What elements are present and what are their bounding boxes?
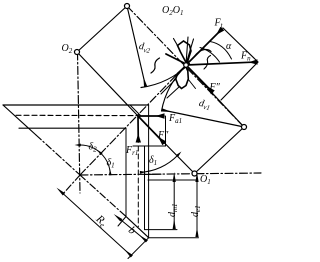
label d_v2 <box>138 41 152 55</box>
svg-text:Fr1: Fr1 <box>125 145 138 157</box>
tooth spur lower b <box>167 87 180 99</box>
wire right node to O1 <box>195 127 245 174</box>
hook curve left of mesh1 <box>151 58 160 73</box>
force Fr1 arrow <box>137 116 139 142</box>
tooth contact stroke up-left <box>166 54 186 64</box>
pinion left edge to big-end corner <box>126 217 149 238</box>
force Fa1 arrow <box>138 115 164 117</box>
wire Re extension dash-dot apex down-left <box>62 175 80 195</box>
label O2 <box>62 43 73 55</box>
wire back-cone line O2 to mesh2 <box>77 52 138 116</box>
wire gear2 blank lower edge <box>19 127 126 129</box>
node mesh1 <box>184 63 189 68</box>
dimension d_e1 <box>196 182 198 237</box>
label b <box>126 224 138 237</box>
horizontal mean-end line y229 <box>145 229 178 231</box>
angle delta1 arc at apex <box>101 154 110 175</box>
angle delta2 arc at apex <box>80 145 101 154</box>
label d_e1 <box>190 205 202 217</box>
label O2O1 <box>162 5 183 17</box>
pitch arc virtual gear 2 <box>141 64 190 88</box>
vertical V2 small-end line <box>125 128 127 216</box>
svg-text:O2: O2 <box>62 43 73 55</box>
label delta1 mesh2 <box>149 155 157 167</box>
vertical V5 big-end line <box>148 105 150 238</box>
node right Ov1 <box>242 125 247 130</box>
tooth spur lower a <box>161 79 176 94</box>
wire parallelogram side Fn-tip to Q <box>221 62 258 100</box>
wire pitch generator dash-dot mesh1 through mesh2 to apex <box>80 65 186 175</box>
label R_e <box>92 212 109 230</box>
tooth flank line upper b <box>186 39 194 64</box>
pitch arc virtual gear 1 <box>162 66 187 112</box>
angle alpha arc outer <box>210 42 232 60</box>
svg-text:dm1: dm1 <box>167 203 179 217</box>
angle alpha arc inner <box>200 48 220 63</box>
wire gear2 axis vertical dash-dot O2 down through apex <box>78 52 81 193</box>
label F'' at mesh2 <box>157 130 169 141</box>
wire mirror generator dash-dot apex down-right to small end <box>80 175 126 217</box>
F'' rectangle bottom side <box>133 145 166 147</box>
vertical V4 <box>144 146 146 230</box>
wire A-B back-cone line from top node to O2 <box>77 6 127 52</box>
wire gear2 left cone edge solid <box>3 105 36 135</box>
angle delta1 arc at mesh2 big <box>141 156 178 173</box>
wire gear2 axis dashed <box>16 114 137 116</box>
wire solid axis overlay at pinion <box>145 173 161 175</box>
label Fn <box>240 51 251 63</box>
label F'' at mesh1 <box>209 82 221 93</box>
dimension d_v2 arrow from top node to arc <box>127 6 146 86</box>
tooth flank line upper a <box>186 37 188 64</box>
label Ft <box>214 18 224 30</box>
break squiggle on Fn shaft <box>204 56 211 70</box>
dimension d_v1 arrow from right node to arc <box>163 110 245 127</box>
force F'' arrow at mesh1 <box>186 65 213 92</box>
dimension d_m1 <box>173 182 175 229</box>
tooth spur upper left <box>174 39 178 46</box>
force Ft arrow <box>186 29 222 65</box>
label Fa1 <box>168 113 182 125</box>
svg-text:dv1: dv1 <box>198 98 212 112</box>
label O1 <box>200 174 211 186</box>
wire parallelogram side Ft-tip to Fn-tip <box>223 28 258 62</box>
label d_m1 <box>167 203 179 217</box>
wire mesh1 to right node with F' along it <box>186 65 244 127</box>
node O1 <box>192 171 197 176</box>
node top Ov2 <box>125 4 130 9</box>
dimension b line <box>121 220 147 241</box>
label Fr1 <box>125 145 138 157</box>
svg-text:O2O1: O2O1 <box>162 5 183 17</box>
pinion small-end face line <box>118 217 126 227</box>
tooth edge at mesh2 <box>130 105 141 116</box>
horizontal reference line y180 <box>148 179 197 181</box>
svg-text:Ft: Ft <box>214 18 224 30</box>
wire back-cone line mesh2 to O1 <box>138 116 195 174</box>
wire gear1 axis horizontal dash-dot apex to right edge <box>80 173 261 175</box>
wire gear2 left cone edge dashdot <box>36 135 80 175</box>
svg-text:Fn: Fn <box>240 51 251 63</box>
svg-text:α: α <box>226 41 232 52</box>
svg-text:Fa1: Fa1 <box>168 113 182 125</box>
svg-text:Re: Re <box>92 212 109 230</box>
pinion big-end face line <box>128 238 149 259</box>
svg-text:δ1: δ1 <box>107 158 115 170</box>
node O2 <box>75 50 80 55</box>
svg-text:δ1: δ1 <box>149 155 157 167</box>
F'' rectangle right side <box>165 116 167 146</box>
label d_v1 <box>198 98 212 112</box>
svg-text:de1: de1 <box>190 205 202 217</box>
svg-text:δ2: δ2 <box>89 142 98 154</box>
svg-text:O1: O1 <box>200 174 211 186</box>
hook curve right of mesh1 <box>195 49 212 56</box>
horizontal big-end line y237 <box>148 237 199 239</box>
tooth spur lower c <box>188 79 196 89</box>
svg-text:F″: F″ <box>157 130 169 141</box>
label delta2 <box>89 142 98 154</box>
tooth profile gear1 lower <box>176 67 189 89</box>
tooth profile gear2 upper <box>178 41 192 62</box>
vertical V3 dashed below Fr1 <box>137 146 139 227</box>
label alpha <box>226 41 232 52</box>
wire centerline OvOv dash-dot from top node through mesh1 to right node <box>127 6 244 127</box>
svg-text:F″: F″ <box>209 82 221 93</box>
wire gear2 blank top edge <box>3 104 149 106</box>
force Fn arrow <box>186 62 257 65</box>
force F'' arrow at mesh2 <box>138 116 164 143</box>
dimension R_e line <box>64 194 132 256</box>
label delta1 apex <box>107 158 115 170</box>
svg-text:dv2: dv2 <box>138 41 152 55</box>
